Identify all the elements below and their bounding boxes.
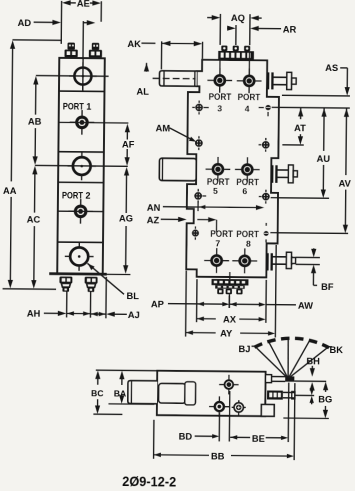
vent screw row2 right — [263, 142, 269, 148]
port 1 circle — [77, 117, 88, 128]
fitting BF stem — [272, 256, 292, 258]
dimension AX line and arrows — [197, 316, 204, 320]
right fitting 1 stem — [273, 76, 291, 78]
svg-text:BE: BE — [252, 434, 265, 444]
svg-text:AH: AH — [27, 309, 41, 319]
dimension AR arrows — [227, 27, 229, 29]
top connector striped body — [218, 51, 254, 60]
vent screw row1 right filled — [265, 105, 270, 110]
svg-text:6: 6 — [242, 186, 247, 196]
stem1 extension line — [294, 380, 326, 382]
svg-text:AS: AS — [325, 63, 338, 73]
svg-text:AX: AX — [223, 315, 237, 325]
left side view block body — [57, 58, 105, 274]
extension line bottom left corner — [196, 279, 198, 322]
svg-text:PORT: PORT — [63, 100, 84, 111]
svg-text:PORT: PORT — [209, 91, 232, 102]
bottom view nut section — [158, 383, 185, 403]
BL leader line — [87, 263, 124, 294]
extension line right edge down — [274, 245, 277, 337]
dimension BE line arrows — [230, 435, 237, 439]
svg-text:4: 4 — [245, 103, 250, 113]
left fitting 2 cylinder — [159, 158, 196, 181]
dimension AJ line and arrows — [113, 313, 127, 315]
dimension AC line with arrows — [34, 172, 36, 213]
svg-text:BL: BL — [126, 291, 139, 301]
block right edge extension down — [105, 277, 107, 318]
bottom fitting left nut — [61, 283, 70, 287]
left view bottom flange edge — [49, 272, 106, 275]
extension line row4 right — [270, 232, 348, 235]
extension line bottom center — [228, 296, 230, 308]
svg-text:AP: AP — [151, 299, 164, 309]
svg-text:AM: AM — [156, 123, 171, 133]
dimension AF line with arrows — [126, 130, 128, 140]
svg-text:2Ø9-12-2: 2Ø9-12-2 — [122, 473, 176, 490]
bottom view stem2 bars — [283, 391, 294, 393]
svg-text:AF: AF — [122, 139, 135, 149]
fitting 1 dashed centerline — [153, 77, 196, 79]
right fitting 2 stem — [277, 169, 293, 171]
boss 2 horizontal centerline — [35, 164, 128, 167]
dimension AD centerline tick — [82, 21, 84, 57]
AQ extension line port3 — [219, 14, 221, 45]
bottom view stem2 striped flange — [267, 390, 283, 399]
bottom connector tier2 — [215, 285, 245, 289]
bottom view body — [157, 371, 266, 416]
svg-text:PORT: PORT — [236, 228, 259, 239]
top fitting left washer nut — [64, 50, 77, 58]
BJ label and tick — [252, 345, 255, 347]
bottom view stem1 — [272, 376, 286, 378]
port 7 circle — [212, 255, 222, 265]
center extension line — [235, 25, 237, 45]
svg-text:AZ: AZ — [147, 215, 160, 225]
svg-text:PORT: PORT — [210, 228, 233, 239]
extension line body left down — [153, 420, 155, 459]
dimension BG right line — [323, 382, 328, 391]
svg-text:AD: AD — [18, 18, 32, 28]
extension line port7 down — [218, 413, 220, 441]
dimension AG line with arrows — [125, 173, 127, 213]
extension line center down — [228, 391, 230, 441]
right fitting 1 nub — [292, 78, 297, 84]
right fitting 1 tee — [287, 72, 292, 89]
bottom view lower circle left — [215, 402, 224, 411]
dimension AT bottom arrow — [299, 134, 301, 138]
svg-text:PORT: PORT — [62, 189, 83, 200]
port 5 circle — [213, 164, 223, 174]
fitting 1 washer line — [194, 71, 196, 86]
fitting BF tee — [286, 252, 291, 268]
vent screw row4 right filled — [264, 231, 269, 236]
svg-text:AU: AU — [317, 154, 331, 164]
svg-text:BF: BF — [321, 282, 334, 292]
boss 2 circle — [73, 157, 91, 175]
extension line tee center down — [287, 383, 290, 442]
bottom view right stem1 flange — [265, 375, 271, 383]
svg-text:AN: AN — [147, 203, 161, 213]
vent screw row3 left — [195, 193, 201, 199]
svg-text:PORT: PORT — [236, 176, 259, 187]
right fitting 2 flange — [271, 165, 273, 183]
top boss vertical centerline — [82, 58, 84, 91]
left view section line 4 — [58, 241, 103, 243]
port 4 vertical line up — [248, 51, 250, 75]
extension line stem end down — [293, 383, 296, 460]
top electrical connector tabs — [221, 46, 227, 51]
svg-text:AW: AW — [298, 301, 313, 311]
dimension AT top arrow — [298, 108, 303, 117]
left fitting 1 cylinder — [159, 71, 196, 87]
top fitting right washer nut — [89, 50, 102, 58]
left view section line 1 — [59, 90, 104, 92]
extension line body top left — [96, 369, 157, 372]
AQ extension line port4 — [249, 14, 251, 45]
svg-text:8: 8 — [246, 239, 251, 249]
bottom view top circle — [225, 380, 234, 389]
svg-text:AY: AY — [220, 329, 233, 339]
dimension BC line — [95, 371, 100, 380]
AN tick on screw column — [197, 201, 199, 211]
AS leader and arrow — [340, 67, 347, 69]
bottom fitting left nub — [62, 287, 69, 292]
AK extension line block corner — [201, 42, 203, 59]
port 6 circle — [242, 165, 252, 175]
AP AW chained dimension line — [168, 303, 197, 305]
svg-text:AQ: AQ — [231, 13, 245, 23]
svg-text:BC: BC — [91, 388, 104, 398]
AZ tick on port7 centerline — [216, 220, 218, 232]
torque fan lines — [255, 346, 289, 378]
bottom view socket — [185, 382, 196, 405]
bottom fitting right nub — [88, 287, 95, 292]
front view center vertical line bottom — [229, 272, 231, 279]
torque dashed arc — [254, 338, 329, 348]
bottom fitting right nut — [87, 284, 96, 288]
bottom right fitting BF flange — [266, 253, 268, 270]
svg-text:1: 1 — [86, 102, 91, 112]
dimension AD arrow to left edge — [34, 21, 54, 23]
svg-text:3: 3 — [217, 103, 222, 113]
bottom view right lower box — [261, 404, 274, 416]
svg-text:BD: BD — [179, 432, 193, 442]
dimension BH arrows — [311, 366, 313, 371]
port 2 circle — [75, 206, 86, 217]
fitting 2 cap line — [161, 159, 163, 181]
svg-text:7: 7 — [215, 239, 220, 249]
bottom view lower circle right — [234, 403, 243, 412]
port 8 circle — [240, 256, 250, 266]
dimension AE right extension line — [100, 1, 102, 21]
svg-text:AJ: AJ — [128, 310, 140, 320]
svg-text:BH: BH — [306, 356, 320, 366]
dimension AH line and arrows — [44, 312, 60, 314]
extension line left edge down — [185, 271, 188, 337]
top fitting left screw head — [67, 43, 74, 50]
svg-text:2: 2 — [85, 191, 90, 201]
block bottom extension right — [103, 273, 131, 275]
AK extension line fitting cap — [160, 41, 162, 69]
AM leader line — [170, 128, 193, 140]
bottom view cylinder cap line — [130, 381, 132, 403]
extension line bottom right corner — [265, 280, 267, 323]
right fitting 2 nub — [293, 171, 297, 177]
svg-text:BG: BG — [318, 394, 332, 404]
svg-text:BB: BB — [211, 451, 225, 461]
left fitting extension line down — [66, 291, 68, 317]
bottom fitting right washer — [85, 277, 98, 284]
svg-text:AR: AR — [283, 24, 297, 34]
svg-text:BJ: BJ — [238, 344, 250, 354]
dimension AQ arrows — [207, 17, 213, 19]
extension line bottom — [3, 288, 56, 291]
bottom boss circle — [70, 247, 88, 265]
dimension AE left extension line — [60, 1, 62, 44]
dimension AD arrow to fitting center — [83, 22, 88, 24]
svg-text:AE: AE — [77, 0, 90, 9]
bottom fitting left washer — [59, 276, 72, 283]
left view section line 3 — [58, 181, 103, 183]
svg-text:AG: AG — [119, 213, 133, 223]
dimension AL arrow — [144, 63, 149, 72]
extension line step corner right — [282, 94, 350, 97]
svg-text:AC: AC — [27, 215, 41, 225]
stem2 extension line — [294, 394, 314, 396]
dimension AA line with arrows — [11, 46, 12, 181]
bottom view cylinder thin section — [128, 381, 157, 404]
right fitting extension line down — [89, 292, 91, 318]
extension line row3 right — [271, 197, 329, 200]
extension line row1 right — [272, 106, 350, 109]
bottom view stem1 tee black — [285, 376, 294, 381]
dimension AV line — [344, 108, 349, 117]
fitting 1 cap line — [163, 71, 165, 86]
dimension AK line and arrows — [141, 42, 155, 44]
dimension BA line — [119, 371, 124, 380]
dimension BD line arrow — [195, 435, 213, 437]
top boss horizontal centerline — [36, 75, 109, 78]
svg-text:BK: BK — [329, 345, 343, 355]
vent screw row2 left — [196, 140, 202, 146]
extension line body bottom left — [93, 413, 122, 415]
dimension BB line arrows — [154, 453, 161, 457]
dimension BF arrows — [311, 249, 316, 258]
dimension AU line — [321, 108, 326, 117]
fitting BF nub — [291, 257, 295, 263]
port 2 horizontal centerline — [58, 210, 103, 212]
svg-text:AK: AK — [127, 39, 141, 49]
right fitting 2 tee — [288, 165, 293, 183]
port 3 vertical line up — [219, 51, 221, 75]
port 1 horizontal centerline — [59, 121, 104, 123]
svg-text:PORT: PORT — [207, 176, 230, 187]
dimension AY line and arrows — [186, 330, 193, 334]
extension line top of fittings — [12, 39, 61, 41]
dimension AZ line and arrows — [161, 218, 181, 220]
dimension AE line — [69, 2, 76, 4]
extension line cylinder bottom — [108, 403, 154, 405]
bottom edge extension right — [283, 417, 328, 419]
vent screw row1 left — [196, 104, 202, 110]
top fitting right screw head — [92, 43, 99, 50]
svg-text:AT: AT — [294, 123, 306, 133]
svg-text:5: 5 — [213, 186, 218, 196]
svg-text:AA: AA — [3, 186, 17, 196]
vent screw row4 left — [193, 230, 199, 236]
svg-text:AL: AL — [136, 86, 149, 96]
top boss circle — [74, 68, 91, 85]
right fitting 1 flange — [267, 72, 269, 89]
svg-text:AB: AB — [28, 117, 42, 127]
extension line row2 right — [282, 144, 303, 146]
bottom connector tabs — [217, 289, 223, 295]
left view section line 2 — [58, 151, 103, 153]
vent screw row3 right — [263, 194, 269, 200]
dimension AB line with arrows — [35, 82, 37, 115]
port 3 circle — [215, 75, 225, 85]
bottom connector tier1 striped — [212, 279, 249, 286]
BK label and tick — [329, 346, 332, 348]
port 4 circle — [244, 76, 254, 86]
port 1 centerline extension right — [104, 122, 128, 124]
dimension AN line and arrows — [163, 206, 198, 208]
svg-text:AV: AV — [339, 178, 352, 188]
front view block outline — [186, 60, 279, 278]
stem2 small arrows — [310, 388, 314, 395]
svg-text:PORT: PORT — [238, 91, 261, 102]
